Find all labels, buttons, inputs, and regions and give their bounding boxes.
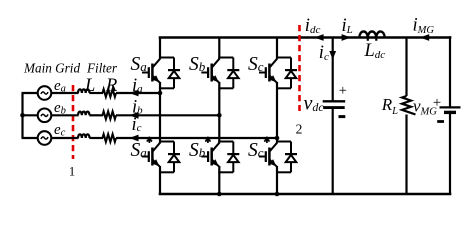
IGBT S_a* <box>142 142 160 167</box>
wire source to filter phase c <box>51 137 78 139</box>
wire bus to source e_b <box>22 114 38 116</box>
section line 1 (dashed) <box>72 85 75 159</box>
current arrow i_a <box>129 90 138 97</box>
node bottom rail leg b <box>217 192 222 197</box>
IGBT S_b <box>201 58 219 83</box>
diode across S_a* <box>159 142 180 173</box>
wire S_a* emitter to bottom rail <box>159 166 161 194</box>
node bus junction <box>20 113 25 118</box>
diode across S_b <box>218 58 239 89</box>
wire bus to source e_a <box>22 92 38 94</box>
diode across S_b* <box>218 142 239 173</box>
wire DC+ top rail <box>159 36 452 39</box>
node phase c junction <box>275 136 280 141</box>
wire battery to bottom rail <box>449 114 451 195</box>
capacitor C bottom plate <box>323 106 345 109</box>
wire L to R phase b <box>89 114 103 116</box>
resistor R phase b <box>103 112 116 120</box>
inductor L phase c <box>78 134 90 138</box>
current arrow i_L <box>342 34 351 41</box>
inductor L phase b <box>78 112 90 116</box>
IGBT S_b* <box>201 142 219 167</box>
IGBT S_c* <box>259 142 277 167</box>
AC source e_c <box>38 131 52 145</box>
wire top rail to S_b collector <box>218 38 220 59</box>
svg-text:1: 1 <box>69 165 75 179</box>
diode across S_c* <box>276 142 297 173</box>
node phase b junction <box>217 113 222 118</box>
current arrow i_b <box>129 112 138 119</box>
wire top rail to capacitor <box>332 38 334 102</box>
wire grid bus <box>21 93 23 138</box>
battery v_MG short plate <box>444 111 456 114</box>
wire capacitor to bottom rail <box>332 109 334 195</box>
node bottom rail leg c <box>275 192 280 197</box>
capacitor C top plate <box>323 100 346 102</box>
wire S_b emitter to phase node <box>218 82 220 116</box>
svg-text:Filter: Filter <box>86 61 118 76</box>
svg-text:+: + <box>339 83 347 99</box>
wire S_b* emitter to bottom rail <box>218 166 220 194</box>
wire R_L to bottom rail <box>405 115 407 195</box>
wire R to bridge phase a <box>116 92 161 94</box>
resistor R phase a <box>103 89 116 97</box>
wire bus to source e_c <box>22 137 38 139</box>
battery v_MG long plate <box>440 106 461 108</box>
current arrow i_dc <box>314 34 323 41</box>
resistor R_L <box>402 96 416 114</box>
svg-text:2: 2 <box>296 122 303 137</box>
inductor L phase a <box>78 89 90 93</box>
IGBT S_a <box>142 58 160 83</box>
section line 2 (dashed) <box>298 25 301 111</box>
label v_MG minus <box>437 120 444 123</box>
wire top rail to R_L <box>405 38 407 97</box>
wire R to bridge phase c <box>116 137 278 139</box>
wire source to filter phase a <box>51 92 78 94</box>
resistor R phase c <box>103 134 116 142</box>
current arrow i_c <box>329 51 336 60</box>
current arrow i_MG <box>420 34 429 41</box>
AC source e_b <box>38 109 52 123</box>
wire phase node to S_a* collector <box>159 93 161 143</box>
wire L to R phase a <box>89 92 103 94</box>
svg-text:Main Grid: Main Grid <box>23 61 80 76</box>
wire phase node to S_b* collector <box>218 115 220 142</box>
wire top rail to battery <box>449 36 451 106</box>
inductor L_dc <box>359 32 384 38</box>
wire top rail to S_c collector <box>276 38 278 59</box>
wire source to filter phase b <box>51 114 78 116</box>
wire R to bridge phase b <box>116 114 220 116</box>
wire S_c* emitter to bottom rail <box>276 166 278 194</box>
wire L to R phase c <box>89 137 103 139</box>
current arrow i_c <box>129 135 138 142</box>
AC source e_a <box>38 86 52 100</box>
node phase a junction <box>158 91 163 96</box>
diode across S_a <box>159 58 180 89</box>
wire DC- bottom rail <box>159 193 452 196</box>
label v_dc minus <box>339 115 346 118</box>
wire top rail to S_a collector <box>159 38 161 59</box>
IGBT S_c <box>259 58 277 83</box>
diode across S_c <box>276 58 297 89</box>
wire S_c emitter to phase node <box>276 82 278 139</box>
wire S_a emitter to phase node <box>159 82 161 94</box>
wire phase node to S_c* collector <box>276 138 278 143</box>
